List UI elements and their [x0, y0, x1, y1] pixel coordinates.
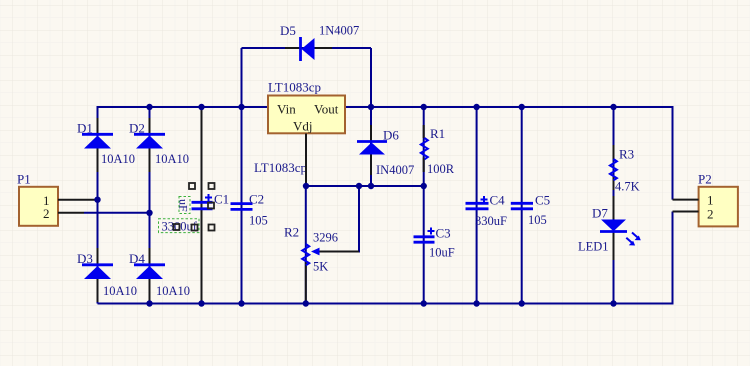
wire C2 / D5-loop left column	[241, 48, 243, 304]
svg-text:D6: D6	[383, 128, 399, 143]
svg-text:1: 1	[707, 193, 714, 208]
svg-text:R1: R1	[430, 126, 445, 141]
svg-text:105: 105	[528, 213, 547, 227]
svg-text:10A10: 10A10	[103, 284, 137, 298]
svg-text:R2: R2	[284, 225, 299, 240]
svg-text:P2: P2	[698, 172, 712, 187]
svg-text:C5: C5	[535, 193, 550, 208]
svg-text:LED1: LED1	[578, 240, 609, 254]
wire R3/D7 column	[613, 107, 615, 304]
capacitor C5	[511, 193, 550, 228]
potentiometer R2	[284, 225, 359, 303]
connector P1	[17, 172, 58, 226]
svg-text:3296: 3296	[313, 231, 338, 245]
wire top bus left (bridge to Vin)	[98, 107, 269, 304]
svg-text:C4: C4	[490, 193, 506, 208]
C1 value text 3300uf (selected)	[159, 219, 200, 234]
diode D1	[77, 118, 135, 172]
svg-text:Vout: Vout	[314, 102, 339, 117]
capacitor C4	[466, 193, 508, 229]
svg-text:D2: D2	[129, 121, 145, 136]
svg-text:4.7K: 4.7K	[615, 180, 640, 194]
capacitor C3	[414, 226, 455, 260]
svg-text:2: 2	[43, 206, 50, 221]
junction dots top bus	[146, 104, 616, 110]
svg-text:10A10: 10A10	[156, 284, 190, 298]
resistor R3	[610, 145, 640, 194]
wire D5 loop top	[242, 47, 372, 49]
svg-text:Vdj: Vdj	[293, 119, 313, 134]
Vdj pin	[305, 134, 307, 187]
P1 pin 2	[58, 212, 150, 214]
svg-text:Vin: Vin	[277, 102, 296, 117]
C1 selection handles	[174, 183, 215, 231]
junction dots bottom bus	[146, 300, 616, 306]
diode D6	[357, 125, 414, 177]
connector P2	[698, 172, 738, 227]
diode D3	[77, 248, 137, 302]
junction dots adj net	[303, 183, 427, 189]
svg-text:IN4007: IN4007	[376, 163, 414, 177]
svg-text:D4: D4	[129, 251, 145, 266]
wire R2 wiper	[319, 186, 360, 252]
wire bottom bus	[98, 212, 673, 304]
svg-text:C2: C2	[249, 192, 264, 207]
svg-text:10A10: 10A10	[155, 152, 189, 166]
diode D4	[129, 248, 190, 302]
svg-text:D5: D5	[280, 23, 296, 38]
diode D5	[280, 23, 359, 61]
junction dots P1 pins	[94, 197, 152, 217]
wire C4 column	[476, 107, 478, 304]
regulator U LT1083cp	[254, 80, 345, 176]
svg-text:C3: C3	[436, 226, 451, 241]
wire R2 column	[305, 186, 307, 304]
wire R1/C3 column	[423, 107, 425, 304]
resistor R1	[421, 125, 455, 176]
P2 pin 2	[673, 211, 699, 213]
wire top bus right (Vout to P2 branch)	[345, 107, 673, 200]
svg-text:D3: D3	[77, 251, 93, 266]
svg-text:R3: R3	[619, 147, 634, 162]
svg-text:LT1083cp: LT1083cp	[254, 160, 307, 175]
svg-text:2: 2	[707, 207, 714, 222]
wire C5 column	[521, 107, 523, 304]
capacitor C2	[231, 192, 268, 228]
capacitor C1	[192, 192, 230, 209]
svg-text:330uF: 330uF	[475, 214, 507, 228]
C1 value text uF (rotated)	[177, 197, 191, 214]
svg-text:C1: C1	[214, 192, 229, 207]
svg-text:10uF: 10uF	[429, 246, 455, 260]
svg-text:D7: D7	[592, 206, 608, 221]
svg-text:105: 105	[249, 214, 268, 228]
wire C1 column	[201, 107, 203, 304]
svg-text:uF: uF	[177, 199, 191, 212]
P2 pin 1	[673, 199, 699, 201]
svg-text:100R: 100R	[427, 162, 455, 176]
LED D7	[578, 196, 641, 260]
diode D2	[129, 118, 189, 172]
svg-text:D1: D1	[77, 121, 93, 136]
P1 pin 1	[58, 199, 98, 201]
svg-text:1N4007: 1N4007	[319, 24, 359, 38]
wire adj net (Vdj to R1 bottom)	[306, 185, 424, 187]
wire D6 column	[370, 48, 372, 186]
svg-text:P1: P1	[17, 172, 31, 187]
svg-text:10A10: 10A10	[101, 152, 135, 166]
svg-text:5K: 5K	[313, 260, 328, 274]
svg-text:LT1083cp: LT1083cp	[268, 80, 321, 95]
wire bridge column D2/D4	[149, 107, 151, 304]
